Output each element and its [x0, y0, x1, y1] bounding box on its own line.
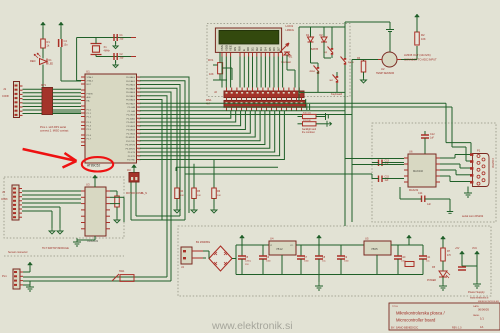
svg-text:TITLE: TITLE — [392, 306, 398, 308]
svg-text:LM335 OUT (10mV/K): LM335 OUT (10mV/K) — [404, 53, 431, 57]
svg-text:the contrast: the contrast — [302, 131, 315, 134]
svg-text:P0.0/AD0: P0.0/AD0 — [126, 76, 136, 79]
svg-text:100n: 100n — [266, 261, 272, 263]
svg-text:U1: U1 — [86, 70, 90, 74]
svg-text:06/06/05: 06/06/05 — [478, 308, 489, 312]
svg-text:TEMP SENSOR: TEMP SENSOR — [376, 72, 394, 75]
svg-text:7812: 7812 — [276, 247, 283, 251]
svg-text:P3.1/TXD: P3.1/TXD — [126, 141, 136, 143]
svg-text:R2: R2 — [421, 33, 425, 37]
svg-text:10K: 10K — [217, 195, 221, 197]
svg-text:U2: U2 — [381, 67, 385, 71]
svg-text:MAX232: MAX232 — [413, 169, 424, 173]
svg-text:P0.7/AD7: P0.7/AD7 — [126, 102, 136, 105]
svg-text:P0.6/AD6: P0.6/AD6 — [126, 99, 136, 102]
svg-text:CON8: CON8 — [2, 95, 9, 98]
svg-text:VCC: VCC — [472, 247, 477, 250]
svg-text:RV1: RV1 — [208, 58, 214, 62]
svg-text:U3: U3 — [86, 183, 90, 187]
svg-text:1uF: 1uF — [430, 138, 435, 140]
svg-text:2200u: 2200u — [245, 261, 252, 263]
svg-text:1/1: 1/1 — [480, 317, 484, 321]
svg-text:P2.1/A9: P2.1/A9 — [128, 110, 136, 113]
svg-text:Mikrokontrolerska plosca /: Mikrokontrolerska plosca / — [396, 311, 445, 316]
svg-text:1/1: 1/1 — [480, 325, 484, 329]
svg-text:LED: LED — [49, 63, 54, 66]
svg-text:U6: U6 — [409, 150, 413, 154]
svg-text:POWER: POWER — [427, 279, 436, 282]
svg-text:P3.3/INT1: P3.3/INT1 — [126, 148, 136, 150]
svg-text:BAT85: BAT85 — [311, 48, 319, 51]
svg-text:P1: P1 — [477, 149, 481, 153]
svg-text:R1: R1 — [47, 40, 51, 44]
svg-text:Pins n. with RP1 serial: Pins n. with RP1 serial — [40, 125, 66, 129]
svg-text:P0.1/AD1: P0.1/AD1 — [126, 80, 136, 83]
svg-text:C10: C10 — [401, 256, 406, 259]
svg-text:J3: J3 — [2, 190, 5, 194]
svg-text:U4: U4 — [270, 237, 274, 241]
svg-text:P2.4/A12: P2.4/A12 — [126, 121, 135, 124]
svg-text:XTAL2: XTAL2 — [87, 80, 94, 83]
svg-text:PAGE:: PAGE: — [473, 314, 480, 317]
svg-text:SW1: SW1 — [119, 270, 125, 273]
svg-text:R10 100: R10 100 — [303, 113, 312, 115]
svg-text:10u: 10u — [64, 44, 69, 47]
svg-text:Microcontroller board: Microcontroller board — [396, 318, 436, 323]
svg-text:10K: 10K — [209, 72, 214, 76]
svg-text:AT89C52: AT89C52 — [87, 163, 100, 167]
svg-text:25V: 25V — [245, 264, 249, 266]
svg-text:100n: 100n — [304, 261, 310, 263]
svg-text:VO: VO — [290, 245, 293, 247]
svg-text:J2: J2 — [214, 90, 217, 94]
svg-text:P1.7: P1.7 — [87, 139, 92, 141]
svg-text:RN1: RN1 — [206, 98, 212, 102]
svg-text:100n: 100n — [344, 261, 350, 263]
svg-text:P2.5/A13: P2.5/A13 — [126, 125, 135, 128]
svg-text:LM016L: LM016L — [286, 29, 295, 32]
svg-text:P2.2/A10: P2.2/A10 — [126, 114, 135, 117]
svg-text:B1 2W005G: B1 2W005G — [196, 240, 210, 244]
svg-text:P0.2/AD2: P0.2/AD2 — [126, 84, 136, 87]
svg-text:J4: J4 — [181, 265, 184, 269]
svg-text:D7: D7 — [277, 47, 281, 51]
svg-text:XTAL1: XTAL1 — [87, 76, 94, 79]
svg-text:BY: SAMO BENEDICIC: BY: SAMO BENEDICIC — [391, 326, 418, 330]
svg-text:P1.2: P1.2 — [87, 117, 92, 119]
svg-text:Keyboard: Keyboard — [331, 92, 343, 96]
svg-text:P0.3/AD3: P0.3/AD3 — [126, 87, 136, 90]
svg-text:C4: C4 — [64, 39, 68, 43]
svg-text:C14: C14 — [418, 192, 423, 195]
svg-text:P3.5/T1: P3.5/T1 — [128, 156, 136, 158]
svg-text:Power Supply: Power Supply — [468, 290, 485, 294]
svg-text:CONNECT TO ADC INPUT: CONNECT TO ADC INPUT — [404, 58, 437, 62]
svg-text:P2.0/A8: P2.0/A8 — [128, 106, 136, 109]
svg-text:C13: C13 — [385, 160, 390, 163]
svg-text:P2.7/A15: P2.7/A15 — [126, 132, 135, 135]
svg-text:RP1: RP1 — [41, 83, 47, 87]
svg-text:C15: C15 — [385, 176, 390, 179]
svg-text:P1.1: P1.1 — [87, 113, 92, 115]
svg-text:1uF: 1uF — [427, 204, 432, 206]
svg-text:P3.0/RXD: P3.0/RXD — [126, 137, 136, 139]
svg-text:C12: C12 — [430, 133, 435, 136]
svg-text:P2.3/A11: P2.3/A11 — [127, 117, 136, 120]
svg-text:www.elektronik.si: www.elektronik.si — [211, 320, 293, 332]
svg-text:RST: RST — [87, 84, 92, 86]
svg-text:connect 2. MISO contact: connect 2. MISO contact — [40, 129, 69, 133]
svg-text:U5: U5 — [365, 237, 369, 241]
svg-text:P3.4/T0: P3.4/T0 — [128, 152, 136, 154]
svg-text:MOTOR CONN: MOTOR CONN — [126, 192, 143, 195]
svg-text:P3.7/RD: P3.7/RD — [127, 160, 135, 162]
svg-text:R11 10K: R11 10K — [303, 120, 312, 122]
svg-text:10K: 10K — [197, 195, 201, 197]
svg-text:J1: J1 — [3, 87, 7, 91]
svg-text:10K: 10K — [421, 37, 426, 41]
svg-text:P0.4/AD4: P0.4/AD4 — [126, 91, 136, 94]
svg-text:Sensor connector: Sensor connector — [8, 251, 28, 254]
svg-text:P1.3: P1.3 — [87, 122, 92, 124]
svg-text:P2.6/A14: P2.6/A14 — [126, 129, 135, 132]
svg-text:X1: X1 — [104, 45, 108, 49]
svg-text:P1.5: P1.5 — [87, 129, 92, 131]
svg-text:serial conn RS232: serial conn RS232 — [462, 214, 484, 218]
svg-text:ALE: ALE — [87, 96, 92, 99]
svg-text:down: down — [310, 71, 316, 73]
svg-text:+5V: +5V — [455, 247, 460, 250]
svg-text:CON8: CON8 — [1, 199, 8, 201]
svg-text:P1.0: P1.0 — [87, 110, 92, 112]
svg-text:1uF: 1uF — [385, 180, 390, 182]
svg-text:menu: menu — [348, 62, 354, 64]
svg-text:PSEN: PSEN — [87, 94, 93, 96]
svg-text:P1.6: P1.6 — [87, 135, 92, 137]
svg-text:Pot1: Pot1 — [287, 55, 293, 59]
svg-text:C11: C11 — [426, 256, 431, 259]
svg-text:4MHz: 4MHz — [104, 50, 111, 53]
svg-text:P3.2/INT0: P3.2/INT0 — [126, 145, 136, 147]
svg-text:REV: 1.0: REV: 1.0 — [452, 327, 462, 330]
svg-text:set: set — [330, 79, 333, 82]
svg-text:LCD1: LCD1 — [286, 24, 294, 28]
svg-text:10K: 10K — [180, 195, 184, 197]
svg-text:7805: 7805 — [371, 247, 378, 251]
svg-text:MIKROKONTROLER: MIKROKONTROLER — [478, 301, 499, 303]
svg-text:TILT SWITCH MODULE: TILT SWITCH MODULE — [42, 247, 69, 250]
svg-text:RED: RED — [30, 59, 36, 63]
svg-text:P0.5/AD5: P0.5/AD5 — [126, 95, 136, 98]
svg-text:P1.4: P1.4 — [87, 126, 92, 128]
svg-text:www.elektronik.si: www.elektronik.si — [470, 297, 489, 300]
svg-text:COMPIM: COMPIM — [491, 158, 494, 168]
svg-text:PL1: PL1 — [2, 274, 7, 278]
